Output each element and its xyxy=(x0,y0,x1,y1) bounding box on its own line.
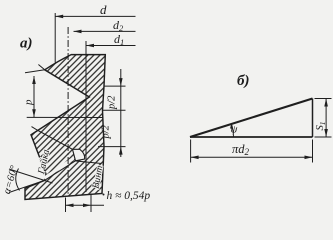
wire: crest line of tooth3 xyxy=(76,161,102,164)
extension line for d xyxy=(54,13,56,63)
svg-text:p: p xyxy=(23,99,35,106)
svg-text:h ≈ 0,54p: h ≈ 0,54p xyxy=(107,190,151,202)
angle psi arc xyxy=(231,123,233,137)
flank lines of groove V2 xyxy=(38,130,85,160)
wire: flank extensions X at tip T3 xyxy=(9,169,53,193)
svg-text:б): б) xyxy=(237,73,249,89)
svg-text:p/2: p/2 xyxy=(106,95,117,110)
centerline d2 (dash-dot) xyxy=(67,27,69,196)
dimension d1 xyxy=(86,45,136,47)
wire: crest line of tooth2 / extension for p xyxy=(27,116,103,118)
dimension d2 xyxy=(74,30,136,32)
triangle xyxy=(190,99,313,138)
angle dimension alpha=60 xyxy=(16,169,20,191)
dimension p (pitch) xyxy=(33,76,35,117)
dimension d xyxy=(55,15,135,17)
extension line for d1 xyxy=(85,41,87,192)
svg-text:ψ: ψ xyxy=(231,124,238,136)
screw/nut hatched mass xyxy=(25,55,105,200)
svg-text:p/2: p/2 xyxy=(101,124,112,139)
dimension h (thread height) xyxy=(65,198,67,213)
dimension S1 xyxy=(315,98,332,100)
dimension pi*d2 xyxy=(190,140,192,163)
wire: flank extension at tip T2 xyxy=(31,127,38,135)
wire: flank extensions X at tip T1 xyxy=(25,65,45,73)
svg-text:d: d xyxy=(100,2,107,17)
svg-text:а): а) xyxy=(20,36,33,52)
label h=0.54p xyxy=(103,194,105,196)
white clearance sliver along V2 lower flank xyxy=(44,159,73,179)
white groove V2 (nut thread space) xyxy=(73,149,85,161)
dimension p/2 chain xyxy=(104,85,126,87)
